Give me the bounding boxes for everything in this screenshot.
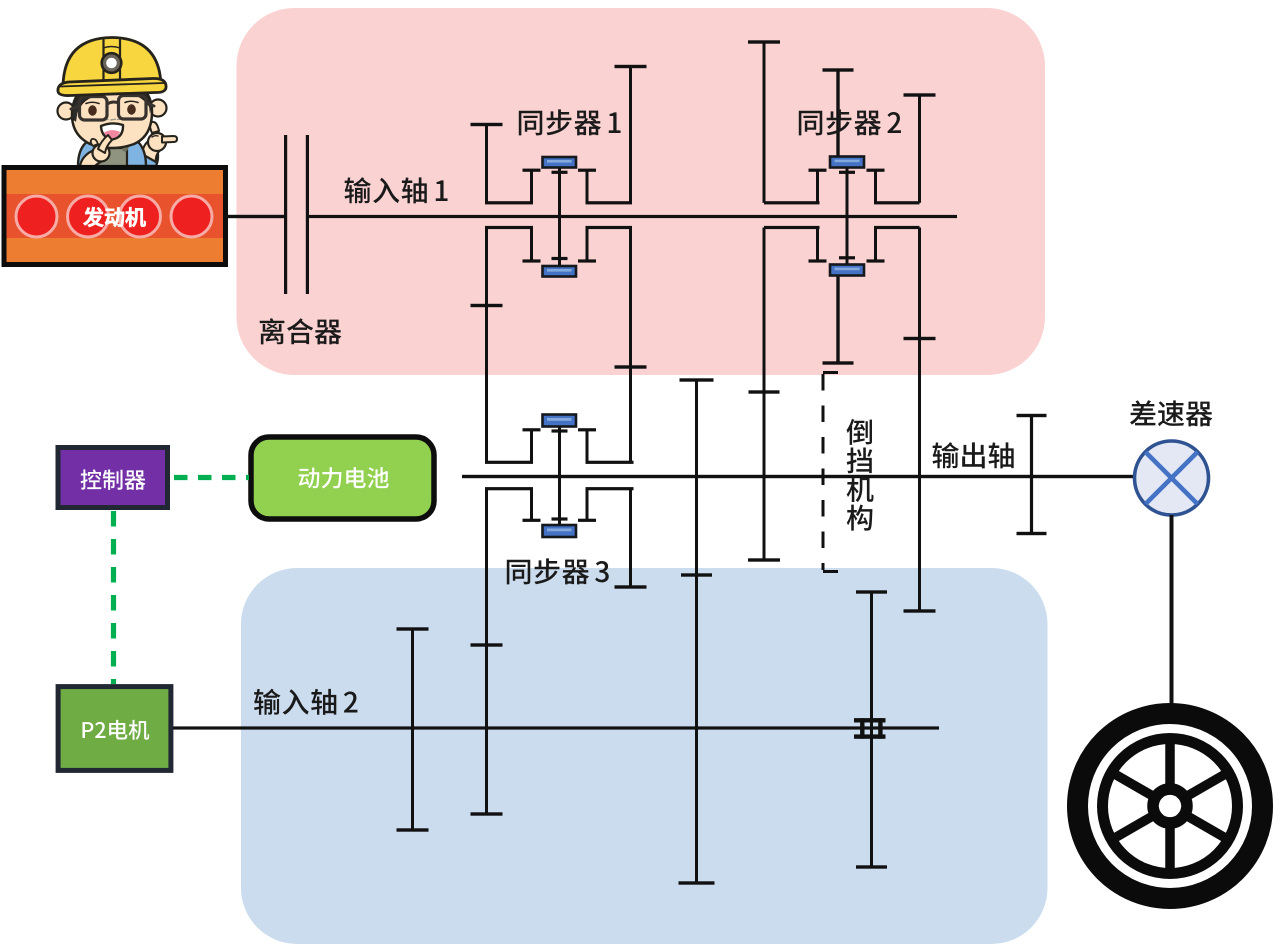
synchronizer S2 upper sleeve — [830, 157, 864, 168]
synchronizer S1 left fork — [523, 169, 541, 172]
engineer face details — [101, 119, 123, 139]
gear G8 caps — [397, 627, 429, 630]
pink region (dual clutch gearbox input side) — [237, 8, 1046, 375]
output shaft label 输出轴 — [933, 442, 1014, 468]
synchronizer S2 left fork — [809, 169, 827, 172]
engineer head — [58, 81, 167, 148]
synchronizer S1 label 同步器1 — [519, 109, 621, 135]
synchronizer S3 left fork — [523, 428, 541, 431]
synchronizer S2 lower sleeve — [830, 265, 864, 276]
engineer glasses — [71, 96, 154, 121]
engine cylinder 3 — [120, 196, 161, 237]
synchronizer S3 upper sleeve — [543, 415, 577, 427]
engine cylinder 2 — [68, 196, 109, 237]
synchronizer S2 stem — [846, 168, 849, 265]
gear G3 line (x696) — [695, 380, 698, 883]
input shaft 1 label 输入轴1 — [345, 177, 448, 203]
clutch label 离合器 — [260, 318, 342, 344]
gear G7 reverse line (x871) — [870, 592, 873, 867]
gear G4 caps — [748, 40, 780, 43]
gear G6 line (x919) — [918, 95, 921, 203]
gear G7 caps — [856, 590, 887, 593]
gear G1 line (x486) — [485, 125, 488, 203]
gear G1 caps — [471, 123, 503, 126]
controller box 控制器 — [58, 448, 168, 508]
synchronizer S1 lower sleeve — [543, 266, 577, 277]
engineer hard hat — [58, 38, 166, 96]
input shaft 2 wire — [173, 726, 939, 729]
engineer pointing arm — [136, 122, 177, 166]
engineer body — [78, 137, 146, 166]
reverse coupling symbol — [854, 718, 886, 739]
synchronizer S2 label 同步器2 — [799, 109, 901, 135]
engine output stub wire — [226, 215, 285, 218]
synchronizer S1 upper sleeve — [543, 157, 577, 168]
input shaft 2 label 输入轴2 — [254, 689, 357, 715]
gear G8 line (x412) — [411, 629, 414, 830]
reverse mechanism label 倒挡机构 (vertical) — [846, 419, 872, 445]
differential — [1135, 441, 1209, 515]
P2 motor box — [58, 687, 171, 771]
engineer character — [58, 38, 178, 167]
differential label 差速器 — [1130, 400, 1212, 426]
synchronizer S1 right fork — [578, 169, 596, 172]
synchronizer S3 stem — [558, 427, 561, 526]
gear G2 caps — [615, 65, 647, 68]
engineer chin hand — [80, 135, 112, 166]
gear G2 line (x630) — [629, 67, 632, 203]
engine cylinder 1 — [16, 196, 57, 237]
battery box 动力电池 — [251, 437, 434, 519]
synchronizer S3 lower sleeve — [543, 525, 577, 537]
engine cylinder 4 — [171, 196, 212, 237]
synchronizer S3 label 同步器3 — [507, 558, 609, 584]
gear G5 stem (x838, synchronizer 2 outer stem) — [836, 70, 839, 157]
final drive gear (x1031) — [1030, 416, 1033, 534]
engine box — [4, 168, 226, 265]
axle wire — [1170, 515, 1174, 704]
gear G4 line (x764) — [763, 42, 766, 203]
gear G3 caps — [680, 378, 714, 381]
output shaft wire — [462, 475, 1134, 478]
controller-battery dashed link — [174, 475, 249, 480]
blue region (EV input side) — [241, 568, 1048, 944]
engine label 发动机 — [84, 207, 146, 227]
reverse mechanism dashed bracket — [823, 373, 838, 572]
input shaft 1 wire — [309, 215, 957, 218]
clutch right plate — [306, 135, 309, 294]
synchronizer S3 right fork — [578, 428, 596, 431]
final drive gear caps — [1017, 414, 1047, 417]
wheel — [1078, 714, 1263, 899]
controller-motor dashed link — [111, 511, 116, 684]
clutch left plate — [284, 135, 287, 294]
gear G5 caps — [823, 68, 854, 71]
synchronizer S1 stem — [558, 168, 561, 267]
synchronizer S2 right fork — [867, 169, 885, 172]
gear G6 caps — [904, 93, 936, 96]
